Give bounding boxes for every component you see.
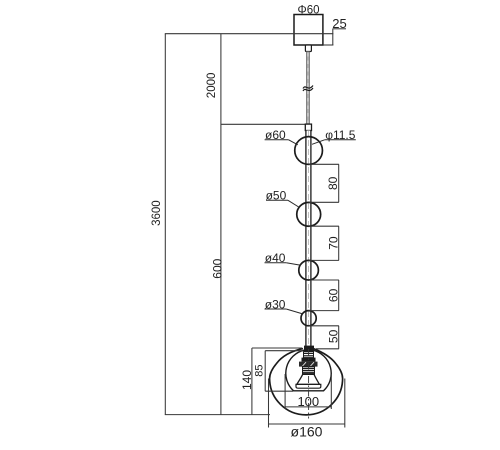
dim Ø160 line xyxy=(269,423,345,425)
dim 85 top tick xyxy=(265,350,303,352)
svg-text:50: 50 xyxy=(326,329,340,343)
canopy (ceiling cup) xyxy=(294,15,323,46)
dim Ø160 right extension xyxy=(344,379,346,428)
svg-text:85: 85 xyxy=(254,364,266,376)
glass ball B4 Ø30 xyxy=(301,311,316,326)
dim 100 right extension xyxy=(330,374,332,409)
cable break symbol xyxy=(303,86,313,89)
dim 140 vertical xyxy=(251,348,253,415)
dim 25 vertical xyxy=(332,29,334,45)
dim 100 left extension xyxy=(284,374,286,409)
svg-text:Φ60: Φ60 xyxy=(298,5,320,17)
svg-text:100: 100 xyxy=(297,394,319,409)
cable (grey) xyxy=(306,52,309,125)
socket mid block xyxy=(302,358,316,362)
glass ball B2 Ø50 xyxy=(297,202,321,226)
svg-text:60: 60 xyxy=(326,288,340,302)
rod centre dash line xyxy=(307,131,309,346)
dim 100 line xyxy=(285,406,331,408)
shade inner glass (100) xyxy=(286,350,331,391)
cable centre dashes (white) xyxy=(307,53,309,123)
centre axis dash-dot xyxy=(308,349,310,419)
connector block xyxy=(305,124,311,130)
socket grommet xyxy=(304,346,314,352)
dim 2000 bottom tick xyxy=(221,123,306,125)
socket neck (threads) xyxy=(304,352,314,358)
svg-text:600: 600 xyxy=(210,258,224,278)
nipple below canopy xyxy=(305,45,311,52)
bulb base plate xyxy=(296,384,321,388)
glass ball B3 Ø40 xyxy=(299,260,319,280)
dim 50 (B4-shade gap) xyxy=(309,325,339,327)
dim 60 (B3-B4 gap) xyxy=(309,279,339,281)
svg-text:70: 70 xyxy=(326,236,340,250)
lamp threads (GU10) xyxy=(303,367,315,375)
svg-text:140: 140 xyxy=(240,370,254,390)
bulb cone xyxy=(297,374,320,384)
dim 85 bottom tick xyxy=(265,390,293,392)
svg-text:25: 25 xyxy=(332,16,346,31)
rod (tube Ø11.5) xyxy=(306,131,311,349)
dim 85 vertical xyxy=(264,351,266,392)
ceiling reference line xyxy=(165,33,333,35)
dim Ø160 left extension xyxy=(268,379,270,428)
svg-text:3600: 3600 xyxy=(151,200,163,226)
bottom reference line xyxy=(165,414,270,416)
dim 2000/600 vertical xyxy=(220,34,222,415)
dim 140 top tick xyxy=(252,347,302,349)
glass ball B1 Ø60 xyxy=(295,137,323,165)
dim 3600 vertical xyxy=(164,34,166,415)
dim 80 (B1-B2 gap) xyxy=(309,163,339,165)
svg-text:ø160: ø160 xyxy=(291,423,323,439)
svg-text:2000: 2000 xyxy=(206,73,218,99)
dim 25 extension (canopy bottom) xyxy=(323,44,334,46)
socket body (widest) xyxy=(299,362,318,367)
dim 25 shelf xyxy=(333,28,347,30)
dim 70 (B2-B3 gap) xyxy=(309,225,339,227)
svg-text:80: 80 xyxy=(326,176,340,190)
shade outer sphere Ø160 xyxy=(270,349,343,415)
